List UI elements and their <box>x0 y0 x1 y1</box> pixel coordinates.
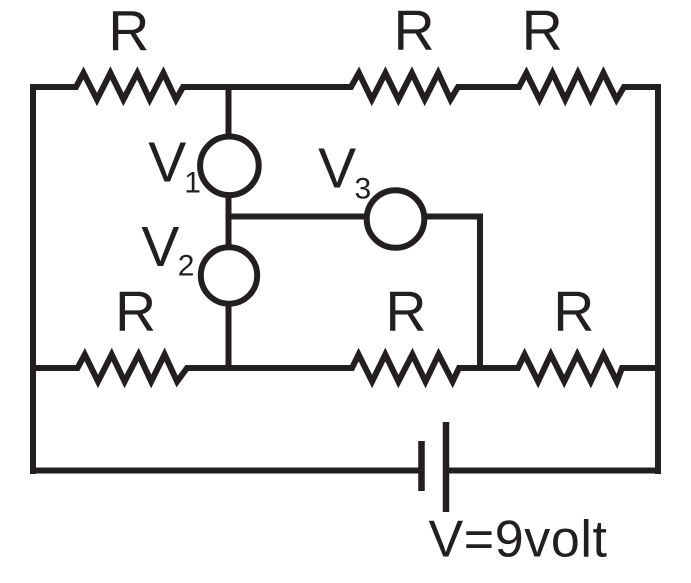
wire: top-right lead from R3 to right corner <box>624 84 661 90</box>
battery V: short (negative) plate <box>418 441 425 491</box>
wire: link between V1 and V2 <box>226 195 232 248</box>
wire: middle row left lead <box>33 365 77 371</box>
resistor R4 (middle-left) <box>74 355 192 382</box>
svg-text:R: R <box>522 0 563 63</box>
resistor R6 (middle-right) <box>514 355 626 382</box>
wire: from V3 right then down to middle row <box>424 217 480 369</box>
wire: top segment between R2 and R3 <box>458 84 519 90</box>
svg-text:R: R <box>385 280 426 344</box>
wire: top-left lead from left corner to R1 <box>30 84 76 90</box>
svg-text:V: V <box>148 131 186 195</box>
svg-text:R: R <box>553 280 594 344</box>
wire: middle row between R4 and R5 <box>187 365 352 371</box>
wire: right edge of outer loop <box>655 84 661 474</box>
svg-text:V: V <box>318 136 356 200</box>
wire: bottom-right segment from battery to right corner <box>446 468 661 474</box>
wire: middle row between R5 and R6 <box>459 365 518 371</box>
svg-text:R: R <box>394 0 435 63</box>
voltmeter V3 <box>367 190 425 248</box>
resistor R1 (top-left) <box>72 73 187 100</box>
voltmeter V1 <box>200 137 259 196</box>
svg-text:V=9volt: V=9volt <box>429 511 608 569</box>
svg-text:V: V <box>141 215 179 279</box>
resistor R3 (top-right) <box>515 73 628 100</box>
wire: top middle segment between R1 and R2 <box>183 84 351 90</box>
wire: bottom-left segment to battery <box>30 468 419 474</box>
resistor R5 (middle-center) <box>348 355 463 382</box>
svg-text:R: R <box>115 280 156 344</box>
wire: from V2 down to middle row (node) <box>226 303 232 368</box>
wire: left edge of outer loop <box>30 84 36 474</box>
svg-text:2: 2 <box>178 249 195 282</box>
battery V: long (positive) plate <box>443 422 450 512</box>
resistor R2 (top-middle) <box>347 73 462 100</box>
wire: branch from top wire down to V1 <box>226 87 232 137</box>
svg-text:1: 1 <box>184 167 201 200</box>
svg-text:R: R <box>108 0 149 63</box>
wire: horizontal from V1/V2 branch to V3 <box>229 214 368 220</box>
voltmeter V2 <box>201 247 257 303</box>
svg-text:3: 3 <box>355 173 372 206</box>
wire: middle row right lead to right edge <box>622 365 658 371</box>
